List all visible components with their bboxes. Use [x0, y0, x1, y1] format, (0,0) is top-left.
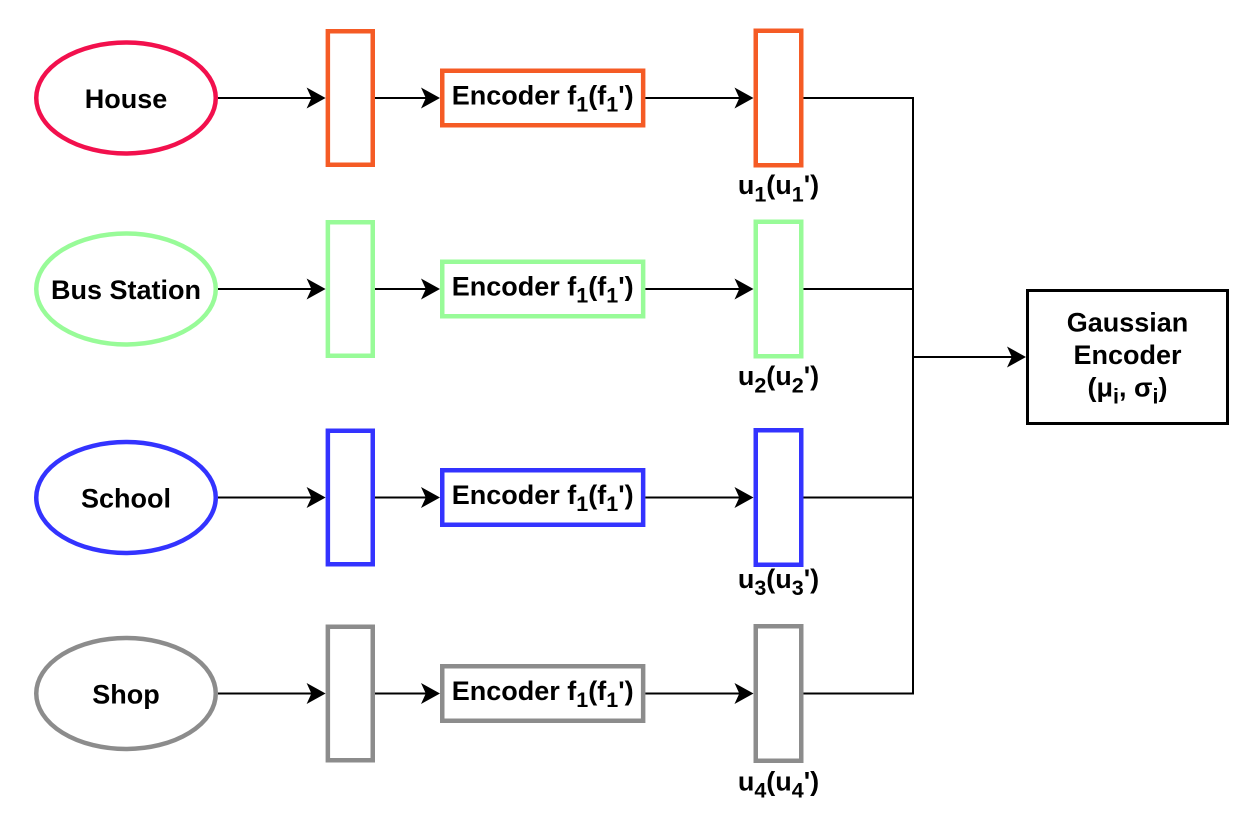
input feature rect row 2 — [328, 222, 373, 356]
input feature rect row 3 — [328, 431, 373, 565]
embedding vector rect u3 — [756, 430, 802, 565]
wire u3 to bus — [804, 497, 914, 499]
wire Encoder 2 to embedding u2 (arrow) — [645, 288, 740, 290]
node Bus Station (ellipse) — [36, 234, 216, 345]
wire Encoder 1 to embedding u1 (arrow) — [645, 97, 740, 99]
input feature rect row 1 — [328, 31, 373, 165]
wire Encoder 4 to embedding u4 (arrow) — [645, 693, 740, 695]
svg-text:School: School — [81, 484, 171, 514]
wire u4 to bus — [804, 693, 914, 695]
node House (ellipse) — [36, 43, 216, 154]
svg-text:Bus Station: Bus Station — [51, 275, 201, 305]
wire u1 to bus — [804, 97, 914, 99]
wire input vector 4 to Encoder 4 (arrow) — [375, 693, 427, 695]
Encoder box row 4 — [442, 666, 643, 721]
embedding vector rect u4 — [756, 626, 802, 761]
Encoder box row 1 — [442, 71, 643, 126]
svg-text:Shop: Shop — [92, 680, 160, 710]
wire input vector 2 to Encoder 2 (arrow) — [375, 288, 427, 290]
wire Shop to input vector 4 (arrow) — [218, 693, 313, 695]
wire School to input vector 3 (arrow) — [218, 497, 313, 499]
wire input vector 1 to Encoder 1 (arrow) — [375, 97, 427, 99]
node School (ellipse) — [36, 442, 216, 553]
wire bus to Gaussian Encoder (arrow) — [913, 356, 1013, 358]
Gaussian Encoder box — [1028, 291, 1228, 424]
svg-text:House: House — [85, 84, 168, 114]
wire Encoder 3 to embedding u3 (arrow) — [645, 497, 740, 499]
wire House to input vector 1 (arrow) — [218, 97, 313, 99]
bus vertical wire — [804, 98, 914, 694]
embedding vector rect u2 — [756, 222, 802, 357]
embedding vector rect u1 — [756, 31, 802, 166]
input feature rect row 4 — [328, 627, 373, 761]
node Shop (ellipse) — [36, 638, 216, 749]
wire input vector 3 to Encoder 3 (arrow) — [375, 497, 427, 499]
wire u2 to bus — [804, 288, 914, 290]
wire Bus Station to input vector 2 (arrow) — [218, 288, 313, 290]
Encoder box row 2 — [442, 262, 643, 317]
Encoder box row 3 — [442, 470, 643, 525]
svg-text:Encoder: Encoder — [1073, 340, 1182, 370]
svg-text:Gaussian: Gaussian — [1067, 308, 1189, 338]
